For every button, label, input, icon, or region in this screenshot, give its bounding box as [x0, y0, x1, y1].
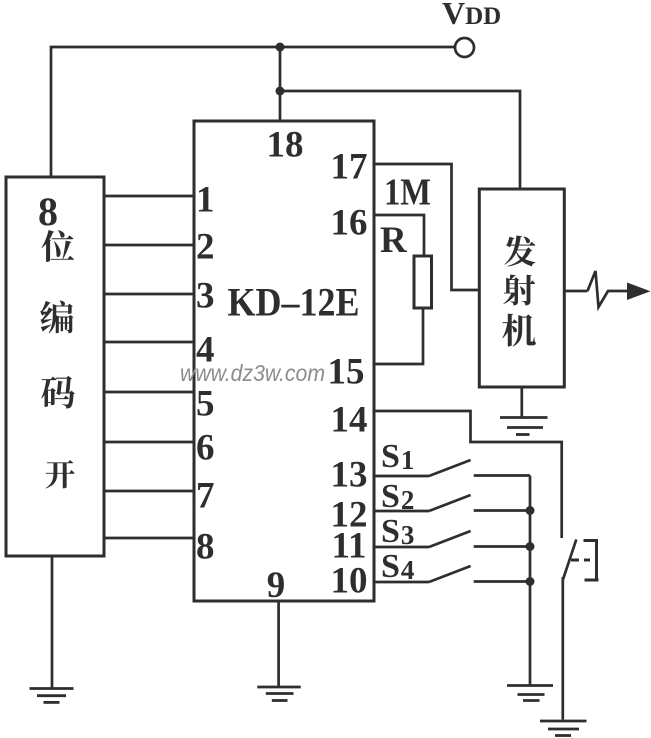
svg-text:9: 9 [267, 565, 286, 606]
svg-text:3: 3 [196, 276, 215, 317]
ground (pin 9) [257, 687, 300, 701]
svg-text:2: 2 [196, 227, 215, 268]
switch S3 pole wire [374, 546, 429, 549]
svg-text:17: 17 [331, 147, 368, 188]
svg-text:18: 18 [267, 125, 304, 166]
wire switch bus to ground [529, 476, 532, 686]
pushbutton dashed link [571, 559, 590, 562]
pushbutton actuator bracket [584, 539, 599, 582]
antenna zigzag [588, 271, 628, 307]
svg-text:1M: 1M [384, 172, 431, 214]
switch S1 throw wire [474, 474, 530, 477]
wire encoder to ground [51, 556, 54, 688]
switch S2 throw wire [474, 509, 530, 512]
encoder box (8-bit code switch) [6, 177, 104, 556]
junction dot S2 bus [526, 506, 535, 515]
wire pin9 to ground [277, 601, 280, 687]
svg-text:8: 8 [38, 189, 58, 234]
IC KD-12E box [194, 121, 374, 601]
wire encoder to pin 8 [104, 537, 194, 540]
junction dot S3 bus [526, 542, 535, 551]
wire pin17 to transmitter input [374, 164, 479, 290]
VDD terminal circle [455, 38, 474, 57]
pushbutton lever [563, 540, 577, 720]
wire encoder to pin 5 [104, 391, 194, 394]
switch S3 throw wire [474, 545, 530, 548]
switch S1 lever [429, 460, 471, 476]
junction dot S4 bus [526, 577, 535, 586]
wire encoder to pin 3 [104, 293, 194, 296]
label 射 [503, 275, 535, 306]
resistor R body [414, 256, 432, 308]
svg-text:VDD: VDD [442, 0, 501, 31]
svg-text:10: 10 [331, 561, 368, 602]
svg-text:8: 8 [196, 527, 215, 568]
wire pin 18 riser [279, 47, 282, 121]
wire encoder to pin 7 [104, 490, 194, 493]
svg-text:14: 14 [331, 400, 368, 441]
switch S4 pole wire [374, 581, 429, 584]
wire encoder to pin 6 [104, 441, 194, 444]
switch S4 throw wire [474, 580, 530, 583]
svg-text:S4: S4 [381, 548, 414, 585]
wire encoder to pin 1 [104, 195, 194, 198]
wire pin16 to resistor top [374, 215, 424, 256]
svg-text:www.dz3w.com: www.dz3w.com [180, 360, 325, 386]
switch S2 pole wire [374, 510, 429, 513]
wire pin14 to pushbutton [374, 411, 562, 538]
antenna arrowhead [627, 283, 651, 301]
wire encoder to pin 4 [104, 341, 194, 344]
junction dot transmitter feed [276, 87, 285, 96]
wire resistor bottom to pin15 [374, 308, 423, 364]
label 位 [41, 230, 74, 262]
junction dot at pin18 riser [276, 43, 285, 52]
svg-text:R: R [380, 220, 408, 261]
label 码 [41, 376, 75, 409]
svg-text:6: 6 [196, 428, 215, 469]
svg-text:KD–12E: KD–12E [228, 280, 360, 325]
svg-text:5: 5 [196, 384, 215, 425]
ground (switch bus) [507, 686, 553, 701]
label 编 [40, 301, 73, 334]
svg-text:S2: S2 [381, 478, 414, 515]
svg-text:16: 16 [331, 203, 368, 244]
svg-text:15: 15 [328, 352, 365, 393]
wire encoder to pin 2 [104, 244, 194, 247]
svg-text:13: 13 [331, 455, 368, 496]
svg-text:S1: S1 [381, 438, 414, 475]
ground (transmitter) [500, 418, 548, 435]
label 机 [502, 314, 535, 347]
switch S2 lever [429, 495, 471, 511]
switch S1 pole wire [374, 475, 429, 478]
label 发 [504, 235, 535, 266]
wire VDD rail top [51, 47, 454, 177]
switch S3 lever [429, 531, 471, 547]
svg-text:7: 7 [196, 476, 215, 517]
ground (pushbutton) [540, 721, 587, 736]
wire VDD node to transmitter top [280, 91, 520, 189]
svg-text:S3: S3 [381, 513, 414, 550]
ground (encoder) [30, 689, 74, 703]
antenna output wire [564, 290, 587, 293]
switch S4 lever [429, 566, 471, 582]
label 开 [45, 460, 74, 489]
wire transmitter to ground [520, 387, 523, 417]
transmitter box [479, 189, 564, 387]
svg-text:1: 1 [196, 180, 215, 221]
